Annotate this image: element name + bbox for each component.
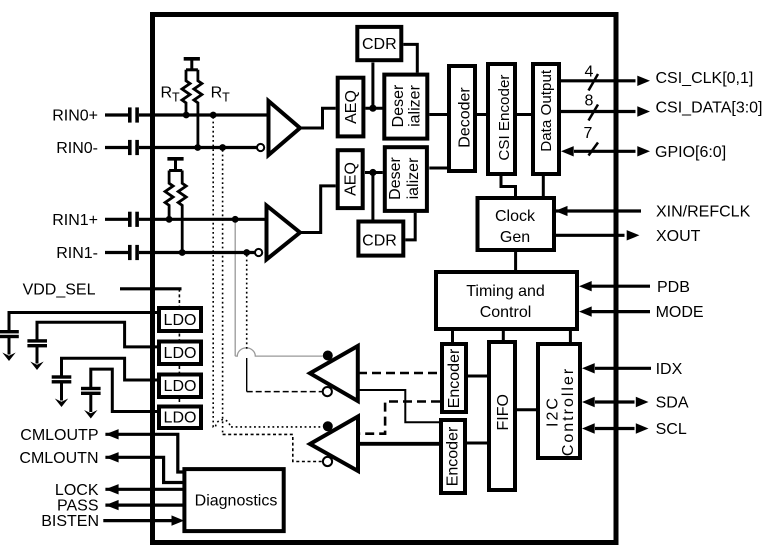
svg-text:LDO: LDO <box>164 410 197 427</box>
svg-text:RIN1+: RIN1+ <box>52 212 98 229</box>
svg-text:Deser: Deser <box>390 84 407 127</box>
svg-text:LDO: LDO <box>164 345 197 362</box>
svg-text:XIN/REFCLK: XIN/REFCLK <box>656 204 751 221</box>
svg-text:SCL: SCL <box>656 421 687 438</box>
svg-text:7: 7 <box>584 125 593 142</box>
svg-text:Deser: Deser <box>387 156 404 199</box>
svg-text:LOCK: LOCK <box>55 482 99 499</box>
svg-text:LDO: LDO <box>164 378 197 395</box>
svg-text:Controller: Controller <box>560 367 577 456</box>
svg-text:PDB: PDB <box>657 279 690 296</box>
svg-text:CSI_DATA[3:0]: CSI_DATA[3:0] <box>656 100 763 117</box>
svg-text:T: T <box>172 91 180 105</box>
svg-text:Timing and: Timing and <box>466 283 545 300</box>
svg-text:CMLOUTP: CMLOUTP <box>20 427 98 444</box>
svg-text:RIN0+: RIN0+ <box>52 108 98 125</box>
svg-text:T: T <box>222 91 230 105</box>
svg-text:BISTEN: BISTEN <box>41 513 99 530</box>
svg-text:Clock: Clock <box>495 208 536 225</box>
svg-text:XOUT: XOUT <box>656 228 701 245</box>
svg-text:Encoder: Encoder <box>446 348 463 408</box>
svg-text:IDX: IDX <box>656 361 683 378</box>
svg-text:CDR: CDR <box>362 36 397 53</box>
svg-text:Diagnostics: Diagnostics <box>195 493 278 510</box>
svg-text:Gen: Gen <box>500 229 530 246</box>
svg-text:FIFO: FIFO <box>495 394 512 430</box>
svg-text:ializer: ializer <box>407 84 424 126</box>
svg-text:Encoder: Encoder <box>444 426 461 486</box>
svg-text:4: 4 <box>585 64 594 81</box>
svg-text:R: R <box>161 85 173 102</box>
svg-text:AEQ: AEQ <box>343 90 360 124</box>
svg-text:8: 8 <box>585 93 594 110</box>
svg-text:CSI_CLK[0,1]: CSI_CLK[0,1] <box>656 70 754 87</box>
svg-text:Control: Control <box>480 304 532 321</box>
svg-text:SDA: SDA <box>656 395 689 412</box>
svg-text:Decoder: Decoder <box>457 87 474 148</box>
svg-text:R: R <box>211 85 223 102</box>
svg-text:RIN0-: RIN0- <box>56 140 98 157</box>
svg-text:MODE: MODE <box>656 304 704 321</box>
svg-text:VDD_SEL: VDD_SEL <box>23 281 96 298</box>
svg-text:I2C: I2C <box>545 396 562 427</box>
svg-text:AEQ: AEQ <box>343 162 360 196</box>
svg-text:LDO: LDO <box>164 312 197 329</box>
svg-text:CMLOUTN: CMLOUTN <box>19 450 98 467</box>
svg-text:CDR: CDR <box>362 233 397 250</box>
svg-text:PASS: PASS <box>57 498 99 515</box>
svg-text:RIN1-: RIN1- <box>56 245 98 262</box>
svg-text:ializer: ializer <box>405 157 422 199</box>
svg-text:CSI Encoder: CSI Encoder <box>496 75 513 161</box>
svg-text:Data Output: Data Output <box>538 69 555 152</box>
svg-text:GPIO[6:0]: GPIO[6:0] <box>655 144 726 161</box>
